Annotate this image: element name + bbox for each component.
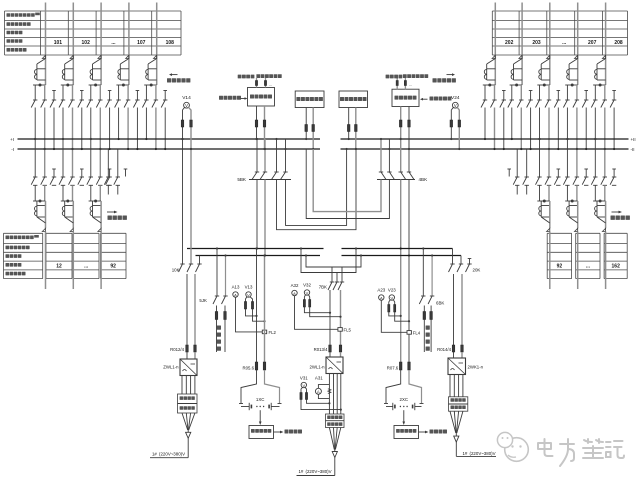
switch 4BK bbox=[380, 139, 382, 172]
feeder line 522 bbox=[521, 3, 523, 86]
ammeter lead to shunt bbox=[236, 297, 263, 332]
svg-text:A13: A13 bbox=[232, 285, 240, 290]
current transformer arcs bbox=[595, 69, 597, 74]
switch 5BK bbox=[256, 139, 258, 172]
breaker pole bbox=[547, 176, 551, 178]
drawout contact bbox=[547, 55, 550, 58]
spare lower feeder right bbox=[516, 149, 518, 177]
junction tie bbox=[565, 200, 578, 202]
disconnect blade bbox=[93, 59, 102, 65]
breaker pole bbox=[89, 176, 93, 178]
CT loop bbox=[92, 201, 94, 217]
panel3 feeders bbox=[348, 108, 350, 140]
svg-text:208: 208 bbox=[614, 40, 623, 46]
panel: insulation monitoring I bbox=[295, 91, 324, 108]
drawout contact bbox=[70, 55, 73, 58]
wire to bus bbox=[127, 108, 129, 150]
svg-text:...: ... bbox=[562, 40, 567, 46]
svg-text:92: 92 bbox=[110, 264, 116, 270]
current transformer arcs bbox=[484, 69, 486, 74]
feeder line 101 bbox=[100, 3, 102, 86]
disconnect blade bbox=[65, 217, 74, 223]
feeder table top-right bbox=[492, 10, 627, 12]
breaker pole bbox=[575, 176, 579, 178]
feeder through table bbox=[45, 232, 47, 290]
wire to bus bbox=[503, 108, 505, 150]
breaker pole bbox=[584, 176, 588, 178]
svg-text:203: 203 bbox=[532, 40, 541, 46]
CT loop bbox=[119, 64, 121, 80]
arrow to monitoring panel bbox=[274, 431, 281, 433]
lower bus I bbox=[187, 248, 324, 250]
panel1 feeders bbox=[256, 106, 258, 139]
battery II supply note bbox=[334, 458, 336, 476]
drawout contact bbox=[575, 55, 578, 58]
disconnect blade bbox=[514, 59, 523, 65]
disconnect blade bbox=[541, 217, 550, 223]
CT loop bbox=[92, 64, 94, 80]
disconnect blade bbox=[93, 217, 102, 223]
svg-text:V: V bbox=[185, 103, 188, 108]
battery III supply note bbox=[455, 442, 457, 456]
wire to bus bbox=[539, 108, 541, 140]
voltmeter fuses and leads bbox=[389, 300, 390, 305]
panel2 feeders bbox=[305, 108, 307, 140]
disconnect blade bbox=[37, 59, 46, 65]
svg-text:101: 101 bbox=[54, 40, 63, 46]
wire to bus bbox=[520, 108, 522, 150]
svg-text:R05.6: R05.6 bbox=[243, 366, 255, 371]
wire to bus bbox=[484, 108, 486, 140]
breaker pole bbox=[603, 176, 607, 178]
wire to bus bbox=[604, 108, 606, 150]
battery monitor box bbox=[394, 426, 419, 439]
current transformer arcs bbox=[146, 69, 148, 74]
wire to bus bbox=[530, 108, 532, 150]
disconnect blade bbox=[65, 59, 74, 65]
svg-text:202: 202 bbox=[505, 40, 514, 46]
battery funnel II bbox=[329, 428, 334, 450]
svg-text:R07.6: R07.6 bbox=[387, 366, 399, 371]
svg-text:V13: V13 bbox=[245, 285, 253, 290]
svg-text:A32: A32 bbox=[291, 283, 299, 288]
svg-text:92: 92 bbox=[557, 264, 563, 270]
breaker poles bbox=[594, 85, 596, 100]
lead to monitor bbox=[259, 410, 261, 421]
breaker poles bbox=[539, 85, 541, 100]
junction tie bbox=[510, 84, 522, 86]
CT loop bbox=[596, 64, 598, 80]
svg-text:...: ... bbox=[269, 82, 272, 87]
current transformer arcs bbox=[90, 69, 92, 74]
bus I positive bbox=[18, 138, 321, 140]
breaker pole bbox=[80, 176, 84, 178]
charger II label box bbox=[326, 414, 345, 428]
disconnect blade bbox=[37, 217, 46, 223]
lower feeder 73 wires bbox=[62, 139, 64, 177]
wire to bus bbox=[548, 108, 550, 150]
switch 10K wires bbox=[182, 139, 184, 264]
current transformer arcs bbox=[511, 69, 513, 74]
breaker pole bbox=[537, 176, 541, 178]
breaker poles bbox=[566, 85, 568, 100]
svg-text:A: A bbox=[317, 389, 320, 394]
svg-text:-II: -II bbox=[631, 147, 635, 152]
drawout contact bbox=[42, 55, 45, 58]
feeder line down bbox=[72, 201, 74, 228]
svg-text:102: 102 bbox=[82, 40, 91, 46]
svg-text:V: V bbox=[390, 295, 393, 300]
PT leads bbox=[451, 107, 453, 139]
drawout contact bbox=[492, 55, 495, 58]
feeder line down bbox=[45, 201, 47, 228]
wire to bus bbox=[44, 108, 46, 150]
feeder line down bbox=[100, 201, 102, 228]
svg-text:2XC: 2XC bbox=[400, 397, 409, 402]
junction tie bbox=[33, 84, 46, 86]
breaker poles bbox=[145, 85, 147, 100]
CT loop bbox=[36, 64, 38, 80]
svg-text:V: V bbox=[454, 103, 457, 108]
wire to bus bbox=[585, 108, 587, 150]
battery I supply note bbox=[187, 438, 189, 457]
battery trapezoid bbox=[241, 370, 257, 404]
breaker pole bbox=[43, 176, 47, 178]
svg-text:12: 12 bbox=[56, 264, 62, 270]
feeder through table bbox=[605, 232, 607, 290]
svg-text:6BK: 6BK bbox=[436, 301, 444, 306]
feeder line 495 bbox=[494, 3, 496, 86]
feeder table top-left bbox=[5, 10, 182, 12]
breaker poles bbox=[90, 85, 92, 100]
svg-text:1# (220V~380)V: 1# (220V~380)V bbox=[462, 451, 495, 456]
battery I feed pair below lower bus bbox=[256, 249, 258, 363]
bus bridge to charger II bbox=[306, 256, 361, 268]
junction tie bbox=[116, 84, 128, 86]
svg-text:V32: V32 bbox=[303, 283, 311, 288]
feeder line 550 bbox=[549, 3, 551, 86]
lower bus II bbox=[342, 248, 453, 250]
feeder through table bbox=[549, 232, 551, 290]
drawout contact bbox=[98, 55, 101, 58]
feeder line 46 bbox=[45, 3, 47, 86]
wire to bus bbox=[136, 108, 138, 150]
charger I output lines bbox=[181, 376, 183, 395]
svg-text:5JK: 5JK bbox=[199, 298, 207, 303]
charger II supply wires bbox=[329, 290, 331, 345]
breaker poles bbox=[34, 85, 36, 100]
wire to bus bbox=[145, 108, 147, 140]
PT leads bbox=[183, 107, 185, 139]
feeder table bottom-left bbox=[4, 232, 43, 234]
svg-text:R013/4: R013/4 bbox=[314, 347, 328, 352]
lead to monitor bbox=[403, 410, 405, 421]
wire to bus bbox=[613, 108, 615, 150]
svg-text:107: 107 bbox=[137, 40, 146, 46]
drawout contact bbox=[70, 228, 73, 231]
breaker poles bbox=[484, 85, 486, 100]
wire to bus bbox=[90, 108, 92, 140]
CT loop bbox=[540, 64, 542, 80]
svg-text:...: ... bbox=[409, 82, 412, 87]
lower feeder 46 wires bbox=[34, 139, 36, 177]
PT fuses bbox=[450, 120, 453, 127]
svg-text:...: ... bbox=[586, 264, 591, 270]
feeder line down bbox=[605, 201, 607, 228]
wire to bus bbox=[109, 108, 111, 150]
battery panel vertical label bbox=[217, 326, 221, 330]
wire to bus bbox=[511, 108, 513, 140]
breaker pole bbox=[107, 176, 111, 178]
panel supply stubs with fuses bbox=[256, 78, 258, 88]
disconnect blade bbox=[541, 59, 550, 65]
feeder through table bbox=[100, 232, 102, 290]
disconnect blade bbox=[569, 59, 578, 65]
svg-text:2WK1-n: 2WK1-n bbox=[468, 365, 484, 370]
charger III rectifier bbox=[448, 358, 466, 375]
breaker pole bbox=[612, 176, 616, 178]
wire to bus bbox=[62, 108, 64, 140]
panel supply stubs with fuses bbox=[396, 78, 398, 89]
junction tie bbox=[33, 200, 46, 202]
wire to bus bbox=[594, 108, 596, 140]
svg-text:V24: V24 bbox=[451, 95, 460, 101]
svg-text:5BK: 5BK bbox=[237, 177, 247, 182]
battery monitor box bbox=[249, 426, 274, 439]
disconnect blade bbox=[597, 217, 606, 223]
svg-text:1XC: 1XC bbox=[256, 397, 265, 402]
breaker pole bbox=[33, 176, 37, 178]
svg-text:A31: A31 bbox=[315, 375, 323, 380]
drawout contact bbox=[602, 55, 605, 58]
feeder line 578 bbox=[577, 3, 579, 86]
PT fuses bbox=[181, 120, 184, 127]
svg-text:4BK: 4BK bbox=[419, 177, 429, 182]
junction tie bbox=[593, 200, 606, 202]
wire to bus bbox=[576, 108, 578, 150]
junction tie bbox=[61, 84, 74, 86]
CT loop bbox=[513, 64, 515, 80]
CT loop bbox=[596, 201, 598, 217]
breaker pole bbox=[98, 176, 102, 178]
ammeter shunt loop bbox=[318, 385, 329, 389]
disconnect blade bbox=[569, 217, 578, 223]
battery funnel I bbox=[182, 413, 188, 430]
breaker poles bbox=[62, 85, 64, 100]
svg-text:+I: +I bbox=[10, 137, 14, 142]
svg-text:207: 207 bbox=[588, 40, 597, 46]
svg-text:A: A bbox=[293, 291, 296, 296]
svg-text:V14: V14 bbox=[182, 95, 191, 101]
battery trapezoid bbox=[386, 370, 401, 404]
svg-text:A: A bbox=[234, 292, 237, 297]
wire to bus bbox=[118, 108, 120, 140]
shunt FL2 bbox=[262, 330, 266, 334]
junction tie bbox=[483, 84, 496, 86]
bus II negative bbox=[341, 148, 629, 150]
junction tie bbox=[144, 84, 157, 86]
charger III label box bbox=[449, 397, 468, 411]
drawout contact bbox=[154, 55, 157, 58]
crossover: 4BK poles 1-2 to bus I bbox=[306, 149, 389, 219]
CT loop bbox=[147, 64, 149, 80]
lower feeder 578 wires bbox=[566, 139, 568, 177]
voltmeter fuses and leads bbox=[246, 297, 247, 302]
wire to bus bbox=[155, 108, 157, 150]
breaker poles bbox=[511, 85, 513, 100]
svg-text:R012/4: R012/4 bbox=[170, 347, 184, 352]
CT loop bbox=[568, 64, 570, 80]
lower feeder 550 wires bbox=[539, 139, 541, 177]
wire to bus bbox=[81, 108, 83, 150]
drawout contact bbox=[98, 228, 101, 231]
feeder table bottom-right bbox=[547, 232, 571, 234]
junction tie bbox=[565, 84, 578, 86]
drawout contact bbox=[126, 55, 129, 58]
junction tie bbox=[61, 200, 74, 202]
lower feeder 606 wires bbox=[594, 139, 596, 177]
wire to bus bbox=[99, 108, 101, 150]
current transformer arcs bbox=[35, 69, 37, 74]
current transformer arcs bbox=[567, 69, 569, 74]
feeder through table bbox=[72, 232, 74, 290]
ammeter lead to shunt bbox=[381, 300, 407, 332]
watermark text bbox=[538, 439, 553, 456]
feeder line 157 bbox=[156, 3, 158, 86]
svg-text:V23: V23 bbox=[388, 288, 396, 293]
svg-text:A: A bbox=[380, 295, 383, 300]
panel: centralized monitoring II bbox=[392, 89, 419, 106]
crossover: 5BK poles 3-4 to bus II bbox=[277, 149, 357, 230]
breaker pole bbox=[52, 176, 56, 178]
svg-text:ZWL1-n: ZWL1-n bbox=[163, 365, 179, 370]
panel: centralized monitoring bbox=[248, 88, 275, 107]
wire to bus bbox=[494, 108, 496, 150]
junction tie bbox=[89, 200, 102, 202]
feeder line 606 bbox=[605, 3, 607, 86]
CT loop bbox=[486, 64, 488, 80]
bus I negative bbox=[18, 148, 321, 150]
feeder line down bbox=[577, 201, 579, 228]
junction tie bbox=[537, 84, 550, 86]
charger II rectifier bbox=[326, 357, 343, 374]
svg-text:108: 108 bbox=[166, 40, 175, 46]
drawout contact bbox=[575, 228, 578, 231]
panel: insulation monitoring II bbox=[339, 91, 368, 108]
junction tie bbox=[593, 84, 606, 86]
CT loop bbox=[64, 64, 66, 80]
svg-text:R014/4: R014/4 bbox=[437, 347, 451, 352]
spare lower feeder left bbox=[107, 149, 109, 177]
shunt FL5 bbox=[338, 328, 342, 332]
bus II positive bbox=[341, 138, 629, 140]
svg-text:FL2: FL2 bbox=[269, 330, 277, 335]
corner note left bbox=[169, 73, 172, 76]
feeder line 129 bbox=[128, 3, 130, 86]
stub labels bbox=[238, 75, 242, 79]
svg-text:A23: A23 bbox=[377, 288, 385, 293]
lower feeder 101 wires bbox=[90, 139, 92, 177]
svg-text:-I: -I bbox=[11, 147, 14, 152]
feeder through table bbox=[577, 232, 579, 290]
svg-text:1# (220V~380)V: 1# (220V~380)V bbox=[298, 469, 331, 474]
5BK outputs to lower bus I bbox=[256, 180, 258, 249]
charger II output lines bbox=[328, 374, 330, 415]
svg-text:...: ... bbox=[84, 264, 89, 270]
charger I label box bbox=[178, 394, 198, 413]
arrow to monitoring panel bbox=[419, 431, 426, 433]
wire to bus bbox=[557, 108, 559, 150]
svg-text:+II: +II bbox=[631, 137, 636, 142]
wire to bus bbox=[34, 108, 36, 140]
svg-text:V: V bbox=[302, 383, 305, 388]
svg-text:FL5: FL5 bbox=[344, 327, 352, 332]
to DC panel label right bbox=[612, 211, 619, 213]
wire to bus bbox=[164, 108, 166, 150]
drawout contact bbox=[547, 228, 550, 231]
breaker pole bbox=[565, 176, 569, 178]
svg-text:...: ... bbox=[111, 40, 116, 46]
current transformer arcs bbox=[118, 69, 120, 74]
svg-text:V31: V31 bbox=[300, 375, 308, 380]
svg-text:V: V bbox=[306, 290, 309, 295]
svg-text:FL4: FL4 bbox=[413, 330, 421, 335]
disconnect blade bbox=[487, 59, 496, 65]
panel4 feeders bbox=[400, 107, 402, 140]
4BK outputs down to battery II branch bbox=[400, 180, 402, 363]
wire to bus bbox=[53, 108, 55, 150]
CT loop bbox=[540, 201, 542, 217]
current transformer arcs bbox=[539, 69, 541, 74]
disconnect blade bbox=[148, 59, 157, 65]
junction tie bbox=[89, 84, 102, 86]
charger I rectifier bbox=[180, 359, 197, 376]
arrow to protection right bbox=[420, 98, 423, 101]
svg-text:20K: 20K bbox=[473, 268, 481, 273]
breaker pole bbox=[556, 176, 560, 178]
svg-text:7BK: 7BK bbox=[319, 285, 327, 290]
breaker poles bbox=[118, 85, 120, 100]
to DC panel label left bbox=[107, 211, 114, 213]
svg-text:2WL1-n: 2WL1-n bbox=[309, 365, 325, 370]
svg-text:162: 162 bbox=[612, 264, 621, 270]
disconnect blade bbox=[597, 59, 606, 65]
ammeter lead to shunt bbox=[295, 296, 338, 330]
corner note right bbox=[447, 74, 453, 76]
CT loop bbox=[36, 201, 38, 217]
svg-text:1# (220V~380)V: 1# (220V~380)V bbox=[152, 451, 185, 456]
table row labels bbox=[7, 13, 11, 17]
breaker pole bbox=[61, 176, 65, 178]
svg-text:V: V bbox=[247, 292, 250, 297]
watermark wechat logo bbox=[505, 438, 529, 462]
wire to bus bbox=[566, 108, 568, 140]
shunt FL4 bbox=[407, 331, 411, 335]
feeder line down bbox=[549, 201, 551, 228]
drawout contact bbox=[519, 55, 522, 58]
breaker pole bbox=[593, 176, 597, 178]
CT loop bbox=[568, 201, 570, 217]
feeder line 73 bbox=[72, 3, 74, 86]
drawout contact bbox=[602, 228, 605, 231]
disconnect blade bbox=[120, 59, 129, 65]
voltmeter fuses and leads bbox=[304, 295, 305, 300]
battery funnel III bbox=[450, 411, 456, 433]
drawout contact bbox=[42, 228, 45, 231]
breaker pole bbox=[70, 176, 74, 178]
junction tie bbox=[537, 200, 550, 202]
current transformer arcs bbox=[62, 69, 64, 74]
